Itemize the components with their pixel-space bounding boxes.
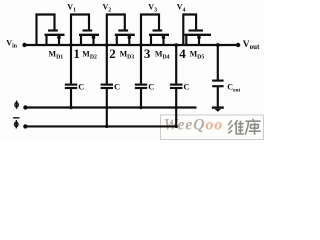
svg-text:MD4: MD4	[155, 50, 170, 61]
svg-text:MD1: MD1	[49, 50, 64, 61]
svg-text:C: C	[183, 81, 189, 91]
svg-text:Vout: Vout	[243, 40, 260, 51]
svg-text:MD5: MD5	[190, 50, 205, 61]
svg-text:3: 3	[144, 46, 151, 61]
svg-text:C: C	[148, 81, 154, 91]
svg-text:V2: V2	[103, 3, 112, 14]
svg-text:MD3: MD3	[120, 50, 135, 61]
svg-text:V3: V3	[148, 3, 157, 14]
svg-text:Cout: Cout	[227, 82, 240, 93]
svg-text:C: C	[114, 81, 120, 91]
svg-text:2: 2	[109, 46, 116, 61]
svg-text:MD2: MD2	[82, 50, 97, 61]
svg-text:V1: V1	[67, 3, 76, 14]
svg-text:C: C	[78, 81, 84, 91]
svg-text:WeeQoo: WeeQoo	[164, 117, 224, 134]
svg-text:4: 4	[179, 46, 186, 61]
svg-text:Vin: Vin	[6, 38, 17, 49]
svg-text:1: 1	[73, 46, 80, 61]
svg-text:V4: V4	[177, 3, 186, 14]
